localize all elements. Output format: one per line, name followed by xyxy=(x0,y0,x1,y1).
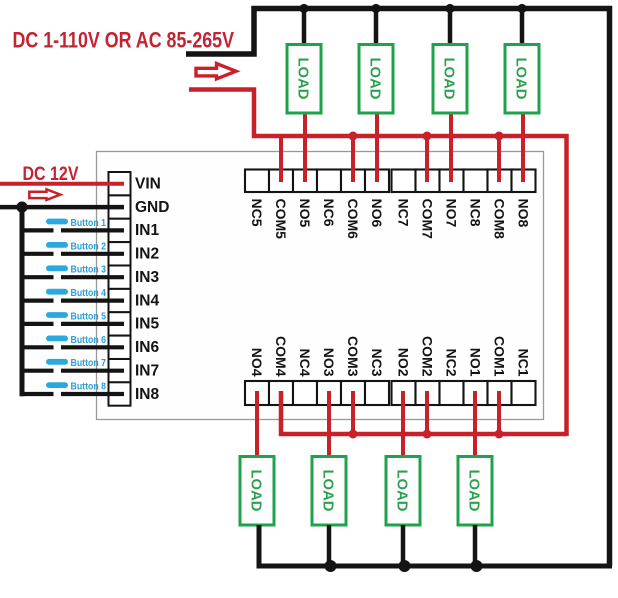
svg-text:IN6: IN6 xyxy=(135,339,160,356)
wire: red NO4 to LOAD4 xyxy=(255,391,259,458)
load L8 xyxy=(505,45,539,114)
svg-text:LOAD: LOAD xyxy=(513,58,530,100)
junction node on bottom red bus xyxy=(349,430,358,439)
junction node on AC bus xyxy=(445,4,454,13)
load L1 xyxy=(458,457,492,526)
wire: red bottom COM bus xyxy=(281,391,567,434)
svg-text:COM4: COM4 xyxy=(273,336,289,377)
junction node on bottom bus xyxy=(399,560,411,572)
svg-text:COM7: COM7 xyxy=(419,199,435,240)
wire: black drop to LOAD8 xyxy=(520,9,525,47)
junction node on red bus xyxy=(349,132,358,141)
wire: red drop to COM5 xyxy=(279,136,283,182)
svg-text:NC1: NC1 xyxy=(515,348,531,376)
junction node on AC bus xyxy=(371,4,380,13)
wire: black drop from LOAD3 xyxy=(327,525,332,566)
svg-text:NC2: NC2 xyxy=(443,348,459,376)
wire: black drop to LOAD6 xyxy=(374,9,379,47)
junction node on bottom red bus xyxy=(423,430,432,439)
svg-text:LOAD: LOAD xyxy=(320,470,337,512)
terminal block bottom (relay outputs 1-4) xyxy=(245,381,536,405)
wire: red drop to COM7 xyxy=(425,136,429,182)
svg-text:LOAD: LOAD xyxy=(394,470,411,512)
switch Button 8 wiring xyxy=(20,392,125,396)
wire: red LOAD5 to NO5 xyxy=(303,112,307,182)
wire: black left button bus xyxy=(20,207,25,396)
wire: black drop to LOAD5 xyxy=(302,9,307,47)
svg-text:COM8: COM8 xyxy=(491,199,507,240)
svg-text:IN8: IN8 xyxy=(135,386,160,403)
junction node on AC bus xyxy=(299,4,308,13)
switch Button 6 wiring xyxy=(20,345,125,349)
svg-text:LOAD: LOAD xyxy=(466,470,483,512)
wire: red drop to COM6 xyxy=(351,136,355,182)
svg-text:LOAD: LOAD xyxy=(441,58,458,100)
load L6 xyxy=(359,45,393,114)
terminal block top (relay outputs 5-8) xyxy=(245,170,536,193)
pushbutton Button 8 xyxy=(46,382,106,393)
junction node on bottom red bus xyxy=(495,430,504,439)
svg-text:DC 12V: DC 12V xyxy=(23,164,79,185)
wire: red NO1 to LOAD1 xyxy=(473,391,477,458)
svg-text:Button 5: Button 5 xyxy=(71,311,107,322)
svg-text:LOAD: LOAD xyxy=(295,58,312,100)
svg-text:Button 4: Button 4 xyxy=(71,288,107,299)
arrow AC input xyxy=(196,64,236,79)
wire: AC line black top bus xyxy=(186,9,610,567)
wire: red LOAD7 to NO7 xyxy=(449,112,453,182)
load L4 xyxy=(240,457,274,526)
junction node on red bus xyxy=(423,132,432,141)
load L2 xyxy=(386,457,420,526)
svg-text:LOAD: LOAD xyxy=(248,470,265,512)
svg-text:Button 2: Button 2 xyxy=(71,241,107,252)
switch Button 4 wiring xyxy=(20,299,125,303)
svg-text:IN7: IN7 xyxy=(135,363,159,380)
wire: red NO2 to LOAD2 xyxy=(401,391,405,458)
pushbutton Button 3 xyxy=(46,265,106,276)
svg-text:Button 1: Button 1 xyxy=(71,218,107,229)
junction node on red bus xyxy=(495,132,504,141)
switch Button 7 wiring xyxy=(20,369,125,373)
load L3 xyxy=(312,457,346,526)
svg-text:GND: GND xyxy=(135,199,169,216)
svg-text:IN4: IN4 xyxy=(135,292,160,309)
svg-text:NO5: NO5 xyxy=(297,199,313,228)
wire: red drop to COM8 xyxy=(497,136,501,182)
svg-text:COM5: COM5 xyxy=(273,199,289,240)
svg-text:Button 3: Button 3 xyxy=(71,265,107,276)
junction node on bottom bus xyxy=(471,560,483,572)
pushbutton Button 7 xyxy=(46,358,106,369)
switch Button 3 wiring xyxy=(20,275,125,279)
wire: black drop from LOAD1 xyxy=(473,525,478,566)
svg-text:NC6: NC6 xyxy=(321,199,337,227)
svg-text:IN1: IN1 xyxy=(135,222,160,239)
svg-text:COM1: COM1 xyxy=(491,336,507,377)
wire: AC neutral red input xyxy=(189,90,567,437)
wire: black drop from LOAD2 xyxy=(401,525,406,566)
wire: red drop from COM2 xyxy=(425,391,429,436)
svg-text:IN3: IN3 xyxy=(135,269,160,286)
relay board outline xyxy=(97,152,544,420)
switch Button 5 wiring xyxy=(20,322,125,326)
arrow DC input xyxy=(29,189,60,200)
load L7 xyxy=(433,45,467,114)
pushbutton Button 5 xyxy=(46,311,106,322)
wire: black drop to LOAD7 xyxy=(448,9,453,47)
svg-text:NO6: NO6 xyxy=(369,199,385,228)
junction node GND bus xyxy=(16,202,27,213)
svg-text:DC 1-110V OR AC 85-265V: DC 1-110V OR AC 85-265V xyxy=(13,28,235,53)
svg-text:NO3: NO3 xyxy=(321,348,337,377)
svg-text:IN2: IN2 xyxy=(135,246,159,263)
svg-text:VIN: VIN xyxy=(135,176,161,193)
svg-text:NC3: NC3 xyxy=(369,348,385,376)
svg-text:NC5: NC5 xyxy=(249,199,265,227)
svg-text:Button 6: Button 6 xyxy=(71,335,107,346)
load L5 xyxy=(287,45,321,114)
svg-text:NC7: NC7 xyxy=(395,199,411,227)
svg-text:NO2: NO2 xyxy=(395,348,411,377)
wire: red LOAD6 to NO6 xyxy=(375,112,379,182)
wire: red DC12V to VIN xyxy=(0,182,124,186)
svg-text:Button 7: Button 7 xyxy=(71,358,107,369)
pushbutton Button 1 xyxy=(46,218,106,229)
svg-text:NC4: NC4 xyxy=(297,348,313,376)
svg-text:NO4: NO4 xyxy=(249,348,265,377)
pin header J1 (VIN GND IN1-IN8) xyxy=(109,172,131,406)
switch Button 1 wiring xyxy=(20,228,125,232)
pushbutton Button 2 xyxy=(46,241,106,252)
junction node on AC bus xyxy=(517,4,526,13)
svg-text:LOAD: LOAD xyxy=(367,58,384,100)
svg-text:COM6: COM6 xyxy=(345,199,361,240)
svg-text:COM2: COM2 xyxy=(419,336,435,377)
wire: red NO3 to LOAD3 xyxy=(327,391,331,458)
junction node on bottom bus xyxy=(325,560,337,572)
switch Button 2 wiring xyxy=(20,252,125,256)
svg-text:NO7: NO7 xyxy=(443,199,459,228)
wire: black DC12V ground to GND xyxy=(0,205,124,210)
svg-text:NO8: NO8 xyxy=(515,199,531,228)
wire: black bottom return bus xyxy=(259,525,612,566)
svg-text:IN5: IN5 xyxy=(135,316,160,333)
svg-text:COM3: COM3 xyxy=(345,336,361,377)
wire: red drop from COM1 xyxy=(497,391,501,436)
pushbutton Button 6 xyxy=(46,335,106,346)
svg-text:Button 8: Button 8 xyxy=(71,382,107,393)
wire: red drop from COM3 xyxy=(351,391,355,436)
svg-text:NO1: NO1 xyxy=(467,348,483,377)
wire: red LOAD8 to NO8 xyxy=(521,112,525,182)
svg-text:NC8: NC8 xyxy=(467,199,483,227)
pushbutton Button 4 xyxy=(46,288,106,299)
